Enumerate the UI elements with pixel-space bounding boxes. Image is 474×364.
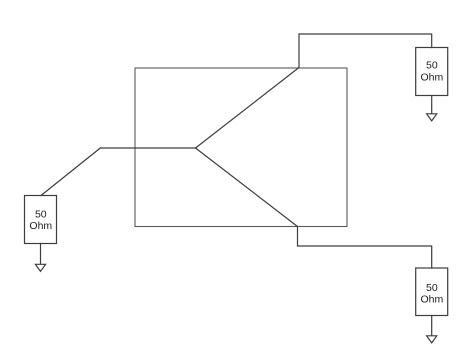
resistor R2 (50 Ohm termination, upper right) [416,48,448,96]
ground (below R2) [427,114,437,121]
wire input diagonal from R1 to input stub [41,148,100,196]
svg-text:Ohm: Ohm [421,71,444,83]
wire upper branch diagonal (node V to top port) [196,68,300,149]
value label 50 Ohm (R1) [29,209,52,232]
wire R2 to ground stem [431,96,433,114]
wire input horizontal to node V [100,147,195,149]
svg-text:50: 50 [35,209,47,221]
subnetwork box (power divider block) [135,68,347,227]
svg-text:Ohm: Ohm [29,220,52,232]
ground (below R1) [35,264,45,271]
resistor R3 (50 Ohm termination, lower right) [416,268,448,316]
wire lower branch diagonal (node V to bottom port) [196,148,298,227]
ground (below R3) [427,336,437,343]
svg-text:Ohm: Ohm [421,293,444,305]
value label 50 Ohm (R2) [421,60,444,84]
wire R3 to ground stem [431,316,433,336]
wire R1 to ground stem [40,244,42,265]
value label 50 Ohm (R3) [421,282,444,306]
wire top output run to R2 [299,34,432,68]
svg-text:50: 50 [426,282,438,294]
wire bottom output run to R3 [298,227,432,269]
svg-text:50: 50 [426,60,438,72]
resistor R1 (50 Ohm termination, lower left) [25,196,57,244]
